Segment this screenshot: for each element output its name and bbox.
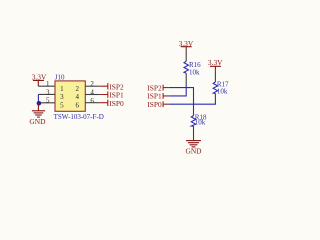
pin numbers outside right 2,4,6 (90, 80, 94, 105)
net label ISP2 (left) (99, 83, 108, 89)
svg-text:6: 6 (90, 97, 94, 105)
wire ISP2 row to R18 column (169, 88, 194, 109)
svg-text:TSW-103-07-F-D: TSW-103-07-F-D (54, 113, 104, 121)
svg-text:J10: J10 (55, 74, 65, 82)
svg-text:3: 3 (60, 93, 64, 101)
junction dot (37, 101, 42, 106)
resistor R17 (214, 70, 216, 82)
svg-text:4: 4 (75, 93, 79, 101)
svg-text:1: 1 (60, 85, 64, 93)
svg-text:5: 5 (60, 101, 64, 109)
pin 4 lead (85, 94, 99, 96)
svg-text:4: 4 (90, 88, 94, 96)
ground GND (right) (186, 141, 201, 147)
ground GND (left) (32, 103, 45, 117)
wire pin3 lead (38, 93, 55, 95)
resistor R18 (193, 109, 195, 116)
svg-text:2: 2 (90, 80, 94, 88)
power 3.3V (left) (33, 80, 44, 86)
power 3.3V (right B) (210, 66, 221, 70)
svg-text:3.3V: 3.3V (208, 58, 223, 67)
svg-text:3: 3 (46, 88, 50, 96)
power 3.3V (right A) (181, 47, 192, 51)
wire pin3-pin5 vertical (37, 94, 39, 103)
svg-text:2: 2 (75, 85, 79, 93)
svg-text:5: 5 (46, 97, 50, 105)
svg-text:GND: GND (29, 117, 46, 126)
wire pin1 lead (38, 85, 55, 87)
svg-text:3.3V: 3.3V (179, 39, 194, 48)
pin 2 lead (85, 85, 99, 87)
svg-text:ISP0: ISP0 (109, 99, 124, 108)
svg-text:10k: 10k (189, 68, 200, 76)
pin 6 lead (85, 102, 99, 104)
wire ISP0 row to R17 column (169, 100, 216, 105)
svg-text:3.3V: 3.3V (32, 73, 47, 82)
pin numbers outside left 1,3,5 (46, 80, 50, 105)
svg-text:GND: GND (185, 147, 202, 156)
svg-text:1: 1 (46, 80, 50, 88)
sheet background (0, 0, 291, 173)
resistor R16 (185, 50, 187, 61)
pin numbers inside (60, 85, 79, 110)
net label ISP1 (left) (99, 91, 108, 97)
svg-text:10k: 10k (195, 118, 206, 126)
svg-text:10k: 10k (217, 88, 228, 96)
wire ISP1 row to R16 column (169, 85, 187, 96)
net label ISP0 (left) (99, 100, 108, 106)
connector J10 body (55, 81, 85, 111)
svg-text:6: 6 (75, 101, 79, 109)
svg-text:ISP0: ISP0 (147, 100, 162, 109)
wire pin5 lead (38, 102, 55, 104)
